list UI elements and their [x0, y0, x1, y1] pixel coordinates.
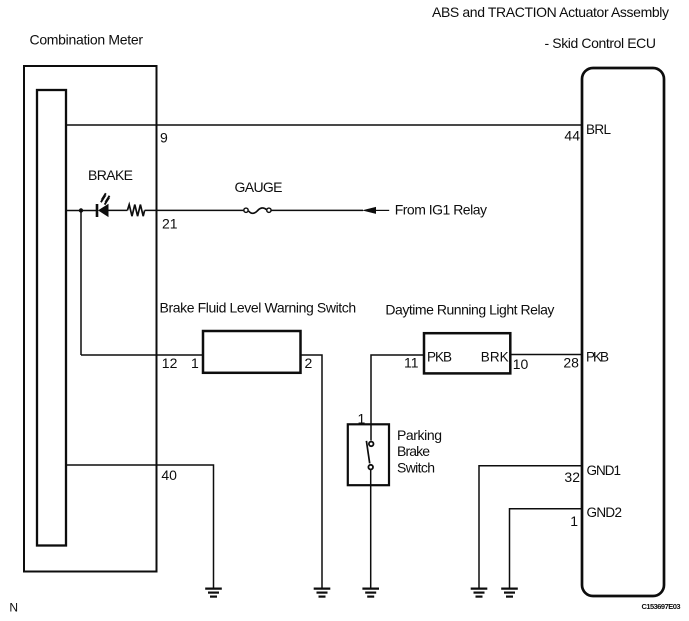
fuse wave element — [249, 208, 267, 213]
svg-text:Switch: Switch — [397, 460, 435, 476]
wire junction drop (dot down to pin12 wire) — [80, 211, 82, 356]
svg-text:- Skid Control ECU: - Skid Control ECU — [545, 35, 657, 51]
wire switch bottom to ground — [370, 470, 372, 588]
svg-text:Parking: Parking — [397, 427, 442, 443]
svg-text:12: 12 — [162, 355, 178, 371]
ground (pin 40) — [205, 589, 222, 597]
LED lamp triangle — [98, 204, 109, 217]
wire pin9 to BRL (44) — [66, 124, 582, 126]
wire GND2 to ground drop — [510, 509, 583, 588]
ground (GND1) — [471, 589, 488, 597]
svg-text:40: 40 — [161, 467, 177, 483]
svg-text:9: 9 — [160, 130, 168, 146]
wire LED to resistor — [109, 209, 128, 211]
svg-text:GAUGE: GAUGE — [235, 179, 283, 195]
LED light ray 2 — [105, 196, 110, 205]
svg-text:Brake: Brake — [397, 443, 430, 459]
combination meter connector strip — [37, 90, 66, 546]
svg-text:Combination Meter: Combination Meter — [30, 31, 144, 47]
daytime running light relay box — [424, 333, 510, 373]
node junction dot — [79, 208, 83, 212]
svg-text:C153697E03: C153697E03 — [642, 602, 681, 611]
wire pin21 left segment — [66, 210, 97, 212]
svg-text:28: 28 — [563, 354, 579, 370]
LED lamp D (brake indicator) cathode bar — [96, 204, 99, 217]
wire parking brake riser to relay pin11 — [371, 355, 424, 441]
svg-text:44: 44 — [564, 128, 580, 144]
wire fuse to arrow — [271, 209, 363, 211]
fuse GAUGE left circle — [244, 208, 248, 212]
svg-text:BRL: BRL — [586, 122, 611, 137]
arrowhead from IG1 relay — [362, 207, 376, 214]
svg-text:BRK: BRK — [481, 349, 509, 364]
svg-text:1: 1 — [570, 513, 578, 529]
wire resistor to fuse — [145, 209, 244, 211]
svg-text:ABS and TRACTION Actuator Asse: ABS and TRACTION Actuator Assembly — [432, 4, 669, 20]
combination meter outer box — [24, 66, 157, 572]
parking brake switch box — [348, 424, 389, 485]
wire switch pin2 to ground drop — [301, 355, 323, 588]
svg-text:BRAKE: BRAKE — [88, 167, 133, 183]
parking brake switch lever — [366, 441, 369, 464]
parking brake switch bottom contact — [368, 465, 373, 470]
brake fluid level warning switch box — [203, 331, 301, 373]
svg-text:PKB: PKB — [586, 350, 609, 365]
svg-text:32: 32 — [564, 469, 580, 485]
wire pin40 to ground — [66, 465, 214, 588]
svg-text:1: 1 — [191, 355, 199, 371]
wire GND1 to ground drop — [479, 466, 582, 588]
svg-text:N: N — [9, 601, 18, 615]
ground (GND2) — [501, 589, 518, 597]
parking brake switch top contact — [369, 442, 374, 447]
svg-text:From IG1 Relay: From IG1 Relay — [395, 201, 487, 217]
wire relay pin10 to ECU pin28 — [510, 354, 582, 356]
svg-text:21: 21 — [162, 215, 178, 231]
svg-text:GND2: GND2 — [587, 505, 623, 520]
ground (brake fluid switch) — [314, 589, 331, 597]
ABS/Traction actuator: skid control ECU body — [582, 68, 664, 596]
wire pin12 to switch pin1 — [81, 354, 203, 356]
LED light ray 1 — [101, 193, 106, 202]
ground (parking brake switch) — [362, 589, 379, 597]
arrow tail — [376, 209, 389, 211]
svg-text:2: 2 — [305, 355, 313, 371]
svg-text:PKB: PKB — [427, 349, 452, 364]
resistor (zigzag) — [127, 205, 144, 217]
svg-text:Daytime Running Light Relay: Daytime Running Light Relay — [385, 301, 554, 317]
svg-text:GND1: GND1 — [587, 463, 622, 478]
svg-text:10: 10 — [513, 356, 529, 372]
svg-text:Brake Fluid Level Warning Swit: Brake Fluid Level Warning Switch — [160, 299, 357, 315]
svg-text:11: 11 — [404, 355, 419, 371]
fuse GAUGE right circle — [267, 208, 271, 212]
